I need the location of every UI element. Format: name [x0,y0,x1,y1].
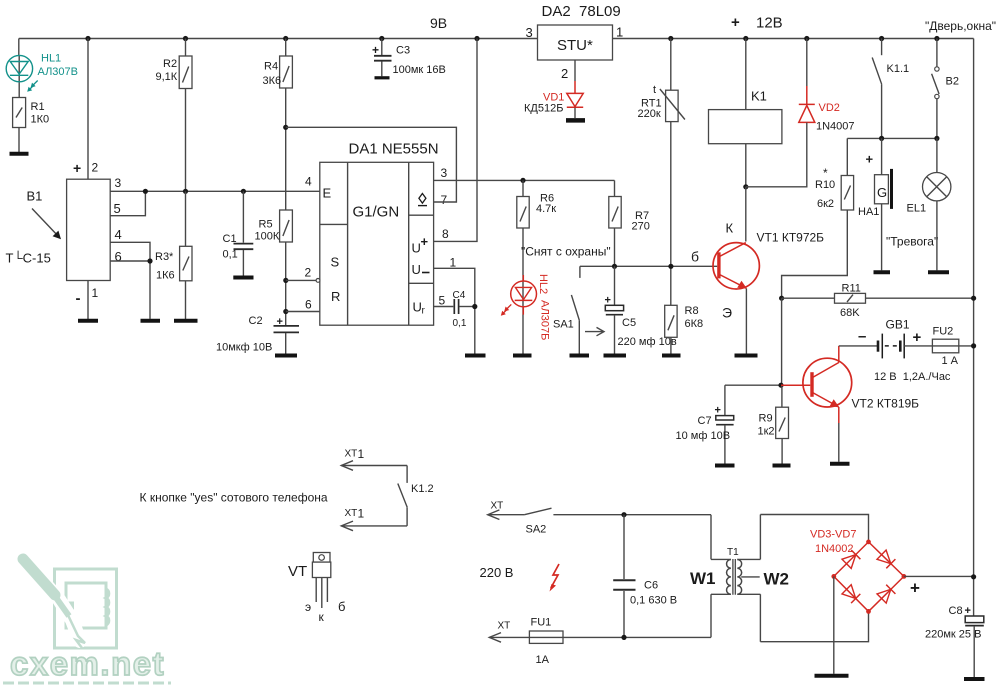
svg-text:1: 1 [358,507,365,521]
svg-text:2: 2 [92,161,99,175]
wire 555 pin7 link to R4 [286,127,457,202]
wire B1 pin3 to 555 pin4 [110,190,320,192]
svg-text:R5: R5 [259,219,273,231]
resistor R5 [255,210,293,243]
junction 9V/R4 [283,36,288,41]
svg-text:6: 6 [115,249,122,264]
wire 555 pin2 [286,279,316,281]
resistor R8 [665,305,703,337]
wire 555 pin1 to ground [434,268,475,353]
ground C3 [375,76,390,79]
capacitor C5 [605,266,677,354]
wire R1 to ground [18,128,20,153]
wire R3 top [185,191,187,246]
ground VD1 [566,118,585,123]
svg-text:Э: Э [722,305,732,321]
svg-text:C4: C4 [453,290,466,301]
svg-text:VT2 КТ819Б: VT2 КТ819Б [852,397,920,411]
wire W2 bottom to bridge [760,611,868,641]
svg-text:R2: R2 [163,58,177,70]
resistor R3* [155,246,192,281]
wire DA2 pin2 [574,60,576,81]
wire base node column [781,298,783,385]
capacitor C8 [925,605,984,677]
svg-text:t: t [653,84,656,96]
svg-text:К кнопке "yes" сотового телеф: К кнопке "yes" сотового телефона [140,491,328,505]
net VT1 base row [580,265,717,267]
svg-text:R9: R9 [759,413,773,425]
LED HL1 [6,53,78,99]
wire R7 bottom [614,228,616,266]
svg-text:1А: 1А [536,654,550,666]
resistor R9 [758,385,789,464]
svg-text:C6: C6 [644,580,658,592]
svg-text:100К: 100К [255,231,280,243]
wire R7 drop [614,180,616,196]
svg-text:3: 3 [441,166,448,180]
resistor R7 [609,197,650,233]
thermistor RT1 [638,84,685,122]
svg-text:DA1 NE555N: DA1 NE555N [349,141,439,158]
wire RT1 top [670,39,672,91]
svg-text:10 мф 10В: 10 мф 10В [676,430,731,442]
lamp EL1 [907,138,951,270]
svg-text:R3*: R3* [155,251,174,263]
ground C4/pin1 [465,354,486,358]
junction R4/pin7 link [283,125,288,130]
resistor R10 [815,166,854,210]
svg-text:R: R [331,289,340,304]
svg-text:W1: W1 [690,569,716,588]
svg-text:1N4002: 1N4002 [815,543,854,555]
diode VD1 [524,81,583,118]
svg-text:T1: T1 [727,547,739,558]
junction pin4/pin6 [147,258,152,263]
svg-text:+: + [421,234,429,249]
svg-text:1 А: 1 А [942,355,959,367]
junction R11 right rail [971,296,976,301]
svg-text:E: E [323,186,332,201]
svg-text:+: + [372,43,379,57]
junction base VT2 node [778,383,783,388]
svg-text:4.7к: 4.7к [536,203,556,215]
svg-text:3К6: 3К6 [263,75,282,87]
svg-text:R4: R4 [264,61,278,73]
transistor VT2 [781,346,919,423]
svg-text:G1/GN: G1/GN [353,204,400,221]
lightning symbol [550,564,560,592]
svg-text:C8: C8 [949,605,963,617]
svg-text:7: 7 [441,193,448,207]
junction battery/right rail [971,343,976,348]
resistor R1 [13,98,50,128]
svg-text:G: G [877,185,887,200]
wire RT1 bottom to base net [670,122,672,306]
ground C8 [964,677,985,681]
svg-text:270: 270 [632,221,650,233]
svg-text:VT: VT [288,563,307,580]
svg-text:6: 6 [305,298,312,312]
switch B2 [932,39,959,139]
battery GB1 [839,318,951,384]
connector XT1 lower [341,507,407,531]
svg-text:1: 1 [450,256,457,270]
svg-text:6к2: 6к2 [817,198,834,210]
wire K1 coil top [745,39,747,110]
ground HL2 [513,354,532,358]
svg-text:0,1: 0,1 [453,318,467,329]
connector XT1 upper [341,447,407,470]
junction base/RT1/R8 [668,264,673,269]
connector XT / FU1 input [489,621,529,643]
resistor R11 [835,283,866,320]
wire R11 row [782,297,974,299]
capacitor C7 [676,385,734,464]
wire R6 top [522,180,524,196]
transformer T1 [690,515,789,642]
svg-text:R11: R11 [842,283,861,295]
buzzer HA1 [858,138,892,270]
junction 12V/VD2 [804,36,809,41]
relay K1 [709,89,782,144]
svg-text:8: 8 [442,227,449,241]
svg-text:220к: 220к [638,108,661,120]
svg-text:2: 2 [561,66,568,81]
svg-text:9,1К: 9,1К [156,71,178,83]
svg-text:XT: XT [345,449,358,460]
wire R2 bottom to pin3 net [185,89,187,192]
svg-text:cxem.net: cxem.net [10,645,165,682]
svg-text:+: + [965,605,971,617]
svg-text:C5: C5 [622,317,636,329]
svg-text:STU*: STU* [557,37,593,54]
bridge VD3-VD7 [810,529,906,614]
wire B1 pin1 [87,281,89,320]
junction C6 bottom [621,635,626,640]
svg-text:0,1 630 В: 0,1 630 В [630,595,677,607]
svg-text:1: 1 [92,286,99,300]
transistor VT1 [691,221,824,321]
regulator DA2 78L09 [526,3,624,81]
junction pin6 [283,309,288,314]
svg-text:+: + [715,405,721,417]
svg-text:2: 2 [305,266,312,280]
ground R3 [174,319,198,323]
net 9V top rail [19,38,538,40]
svg-text:э: э [305,600,311,614]
wire 9V to 555 pin8 [434,39,477,242]
svg-text:U: U [413,300,422,315]
svg-text:VT1 КТ972Б: VT1 КТ972Б [757,231,825,245]
capacitor C2 [216,315,299,354]
svg-text:–: – [858,328,866,345]
ground R8 [662,354,681,358]
wire VT2 emitter to ground [838,423,840,462]
svg-text:C2: C2 [249,315,263,327]
ground EL1 [928,270,949,274]
junction 9V/pin8 feed [474,36,479,41]
wire R10 top [846,138,848,175]
svg-text:"Дверь,окна": "Дверь,окна" [925,19,996,33]
svg-text:K1.2: K1.2 [411,483,434,495]
junction 9V/C3 [379,36,384,41]
connector XT / SA2 input [488,501,552,536]
svg-text:VD2: VD2 [819,102,840,114]
svg-text:HA1: HA1 [858,206,879,218]
fuse FU2 [932,326,973,368]
svg-text:+: + [866,152,874,167]
wire R6 to HL2 [522,228,524,354]
sensor B1 [6,160,122,307]
svg-text:4: 4 [305,175,312,189]
junction pin3/R2 [183,189,188,194]
wire right rail [973,39,975,617]
wire W2 top to bridge [760,515,868,542]
junction relay/VD2/collector [743,184,748,189]
svg-text:DA2 78L09: DA2 78L09 [542,3,621,20]
svg-text:9В: 9В [430,15,447,31]
ground B1 pin1 [78,319,98,323]
svg-text:3: 3 [115,176,122,190]
svg-text:КД512Б: КД512Б [524,103,563,115]
svg-text:1к2: 1к2 [758,426,775,438]
svg-text:5: 5 [439,294,446,308]
junction 12V/RT1 [668,36,673,41]
svg-text:5: 5 [114,201,121,216]
wire B1 pin5 link [110,191,145,215]
wire VT1 collector [745,187,747,242]
ground C5 [604,354,627,358]
capacitor C1 [223,191,254,275]
wire R3 bottom [185,281,187,319]
svg-text:C1: C1 [223,233,237,245]
wire R2 top [185,39,187,57]
svg-text:+: + [73,160,81,176]
IC DA1 NE555N [305,141,457,326]
wire FU1 to W1 [563,636,711,638]
junction 12V/B2 [934,36,939,41]
svg-text:1: 1 [358,447,365,461]
wire R4 bottom down to R5 (crosses pin4 wire) [285,88,287,210]
wire HL1 column top [18,39,20,57]
svg-text:K1.1: K1.1 [887,63,910,75]
resistor R6 [517,193,556,229]
svg-text:FU2: FU2 [933,326,954,338]
diode VD2 [746,39,855,187]
svg-text:б: б [691,249,699,265]
wire 555 pin5 [434,306,454,308]
svg-text:Т└С-15: Т└С-15 [6,251,51,266]
junction pin2 [283,278,288,283]
junction 12V/K1.1 [879,36,884,41]
svg-text:1К6: 1К6 [156,270,175,282]
svg-text:"Тревога": "Тревога" [886,235,938,249]
junction pin5/pin3 [143,189,148,194]
svg-text:FU1: FU1 [531,617,552,629]
svg-text:12В: 12В [756,15,783,32]
transistor VT pinout drawing [288,553,345,625]
svg-text:10мкф 10В: 10мкф 10В [216,342,272,354]
svg-text:S: S [331,255,340,270]
junction alarm/EL1 [934,136,939,141]
wire C7 link [725,384,781,386]
wire B1 pin2 column [87,39,89,180]
svg-text:R10: R10 [815,179,835,191]
capacitor C6 [613,515,677,638]
ground VT1 emitter [735,354,758,358]
capacitor C3 [372,39,446,77]
svg-text:W2: W2 [764,570,790,589]
svg-text:К: К [726,221,734,236]
LED HL2 [501,274,551,340]
ground HA1 [874,270,891,274]
svg-text:6К8: 6К8 [685,318,704,330]
junction pin3/C1 [241,189,246,194]
wire alarm row [847,137,937,139]
svg-text:+: + [913,329,922,346]
capacitor C4 [453,290,475,329]
svg-text:HL1: HL1 [41,53,61,65]
svg-text:VD3-VD7: VD3-VD7 [810,529,856,541]
watermark cxem.net logo [3,559,171,683]
junction bridge/right rail [971,574,976,579]
svg-text:U: U [412,262,421,277]
wire B1 pin4 link [110,242,150,319]
junction 9V/R2 [183,36,188,41]
wire R10 bottom to R11 node [782,210,848,298]
svg-text:K1: K1 [751,89,767,104]
svg-text:1N4007: 1N4007 [816,121,855,133]
wire 555 pin3 output [434,179,615,181]
junction pin3/R6 [520,178,525,183]
svg-text:XT: XT [345,508,358,519]
wire R8 bottom [670,337,672,354]
junction C4/pin1 [472,304,477,309]
switch K1.2 [398,466,434,526]
svg-text:3: 3 [526,25,533,40]
ground bridge [815,674,849,678]
svg-text:АЛ307Б: АЛ307Б [539,300,551,340]
svg-text:+: + [910,579,920,598]
svg-text:68K: 68K [840,307,860,319]
svg-text:B1: B1 [27,189,43,204]
svg-text:EL1: EL1 [907,203,927,215]
svg-text:100мк 16В: 100мк 16В [393,64,446,76]
wire VT1 emitter to ground [745,289,747,355]
net 12V rail [612,38,973,40]
switch K1.1 [872,39,909,139]
svg-text:U: U [412,241,421,256]
ground C2 [275,354,297,358]
junction base/R7/C5 [612,264,617,269]
wire bridge minus to ground [833,576,835,673]
wire bridge plus output [904,575,974,577]
junction 9V/B1 [85,36,90,41]
svg-text:B2: B2 [946,76,959,88]
svg-text:220мк 25 В: 220мк 25 В [925,629,981,641]
junction 12V/K1 [743,36,748,41]
svg-text:SA2: SA2 [526,524,547,536]
resistor R2 [156,56,193,89]
svg-text:*: * [823,166,828,180]
wire K1 bottom [745,144,747,187]
wire R4 top [285,39,287,57]
ground B1 pin4/6 [141,319,161,323]
svg-text:1: 1 [616,25,623,40]
svg-text:XT: XT [491,501,504,512]
svg-text:АЛ307В: АЛ307В [38,66,79,78]
svg-text:+: + [731,14,740,31]
junction SA2/C6 [621,512,626,517]
ground C1 [233,276,253,280]
ground C7 [715,464,735,468]
wire SA2 to C6/W1 [553,514,711,516]
svg-text:1К0: 1К0 [31,114,50,126]
ground R9 [773,464,791,468]
svg-text:220 В: 220 В [480,565,514,580]
svg-text:0,1: 0,1 [223,248,238,260]
svg-text:XT: XT [498,621,511,632]
svg-text:-: - [76,290,81,307]
svg-text:б: б [338,599,345,614]
ground R1 [10,152,29,156]
svg-text:к: к [319,610,325,624]
svg-text:HL2: HL2 [537,274,549,294]
svg-text:C7: C7 [698,415,712,427]
svg-text:GB1: GB1 [886,318,910,332]
switch SA1 [553,266,604,354]
resistor R4 [263,56,293,88]
svg-text:C3: C3 [396,45,410,57]
svg-text:4: 4 [115,227,122,242]
junction alarm/HA1 [879,136,884,141]
svg-text:"Снят с охраны": "Снят с охраны" [521,245,611,259]
junction R11 left [779,296,784,301]
ground VT2 emitter [830,462,850,466]
wire B1 pin6 link [110,260,150,262]
wire R5 bottom to pins 2/6 [285,242,287,325]
ground SA1 [570,354,590,358]
svg-text:R8: R8 [685,305,699,317]
fuse FU1 [529,617,563,667]
svg-text:SA1: SA1 [553,319,574,331]
wire 555 pin6 [286,311,320,313]
svg-text:R1: R1 [31,101,45,113]
svg-text:12 В 1,2А./Час: 12 В 1,2А./Час [874,371,951,383]
